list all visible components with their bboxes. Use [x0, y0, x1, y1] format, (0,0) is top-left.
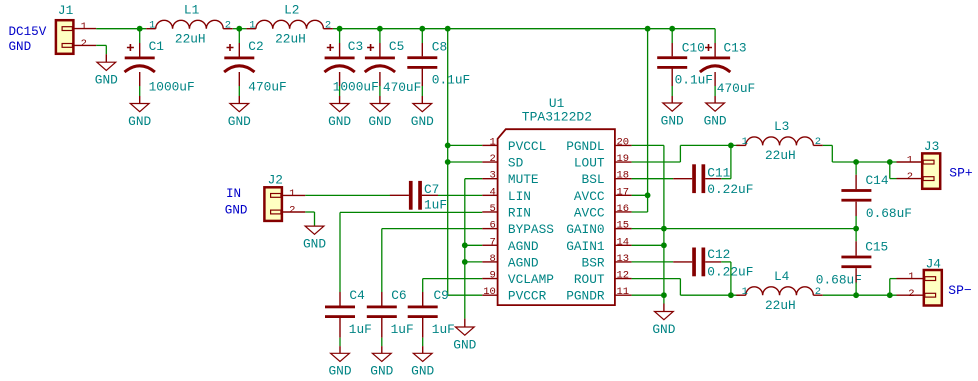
- wire C10 bottom pin: [671, 69, 673, 87]
- capacitor C13 470uF: [700, 41, 755, 97]
- svg-text:1: 1: [81, 21, 87, 33]
- junction J3 pin2 tap: [887, 159, 893, 165]
- wire to pin2 SD: [448, 161, 483, 163]
- ground C6: [370, 353, 393, 378]
- pin 2 SD: [482, 153, 523, 171]
- wire C8 top: [421, 29, 423, 43]
- svg-text:PGNDL: PGNDL: [566, 139, 604, 154]
- svg-text:C10: C10: [682, 41, 705, 56]
- wire pin11 PGNDR: [632, 294, 664, 296]
- wire C8 bottom pin: [421, 69, 423, 87]
- svg-text:C13: C13: [724, 41, 747, 56]
- svg-text:15: 15: [617, 220, 630, 232]
- svg-text:3: 3: [489, 170, 495, 182]
- wire J2 pin1 stub: [282, 194, 305, 196]
- wire AVCC vertical: [647, 29, 649, 212]
- svg-text:470uF: 470uF: [717, 81, 755, 96]
- svg-text:8: 8: [489, 253, 495, 265]
- svg-text:PVCCL: PVCCL: [508, 139, 546, 154]
- connector J1: [56, 3, 87, 54]
- svg-text:SP−: SP−: [948, 283, 972, 298]
- wire C11 right: [721, 178, 731, 180]
- capacitor C1 1000uF: [125, 39, 195, 95]
- svg-text:2: 2: [815, 136, 821, 148]
- svg-text:22uH: 22uH: [765, 148, 796, 163]
- svg-text:0.1uF: 0.1uF: [675, 73, 713, 88]
- inductor L1 22uH: [146, 2, 233, 46]
- inductor L2 22uH: [246, 2, 333, 46]
- wire J2 to C7: [305, 194, 390, 196]
- svg-text:J1: J1: [58, 3, 74, 18]
- junction AVCC vertical/rail: [645, 26, 651, 32]
- capacitor C6 1uF: [367, 288, 414, 337]
- svg-text:0.68uF: 0.68uF: [866, 206, 912, 221]
- svg-text:C9: C9: [434, 288, 449, 303]
- ground J2: [303, 226, 326, 251]
- svg-text:BSL: BSL: [582, 172, 605, 187]
- svg-text:J3: J3: [924, 139, 939, 154]
- pin 1 PVCCL: [482, 136, 546, 154]
- svg-text:GAIN0: GAIN0: [566, 222, 604, 237]
- wire C2 top: [238, 29, 240, 43]
- wire C5 bottom pin: [379, 72, 381, 86]
- wire L3 down: [831, 145, 833, 162]
- wire MUTE/AGND vertical: [464, 179, 466, 319]
- junction C1/rail: [137, 26, 143, 32]
- wire ROUT to L4: [680, 294, 740, 296]
- svg-text:GND: GND: [9, 40, 32, 54]
- capacitor C11 0.22uF: [673, 164, 753, 197]
- wire to pin10 PVCCR: [448, 294, 483, 296]
- wire to pin16 AVCC: [632, 211, 648, 213]
- ground PGND: [652, 312, 675, 337]
- svg-text:GND: GND: [453, 337, 476, 352]
- wire pin18 BSL: [632, 178, 674, 180]
- svg-text:2: 2: [225, 20, 231, 32]
- pin 10 PVCCR: [482, 286, 546, 304]
- svg-text:L2: L2: [284, 2, 299, 17]
- svg-text:J2: J2: [268, 172, 283, 187]
- svg-text:2: 2: [489, 153, 495, 165]
- wire gnd stem: [339, 96, 341, 104]
- svg-text:GND: GND: [652, 322, 675, 337]
- pin 5 RIN: [482, 203, 531, 221]
- wire J2 pin2 stub: [282, 211, 305, 213]
- svg-text:1: 1: [908, 271, 914, 283]
- wire J3 pin1 stub: [897, 161, 923, 163]
- svg-text:L4: L4: [774, 269, 790, 284]
- inductor L3 22uH: [736, 119, 823, 163]
- wire to pin1 PVCCL: [448, 144, 483, 146]
- wire C15 bottom pin: [855, 268, 857, 282]
- junction C14 top: [853, 159, 859, 165]
- wire C3 pin: [339, 43, 341, 57]
- junction PVCC vertical/rail: [445, 26, 451, 32]
- svg-text:9: 9: [489, 270, 495, 282]
- wire C14 top pin: [855, 175, 857, 189]
- wire J4 pin1: [890, 278, 897, 280]
- connector J2: [264, 172, 295, 221]
- svg-text:C4: C4: [349, 288, 365, 303]
- svg-text:AVCC: AVCC: [574, 205, 605, 220]
- svg-text:1uF: 1uF: [349, 322, 372, 337]
- svg-text:PGNDR: PGNDR: [566, 289, 605, 304]
- wire top rail L2 to C13: [333, 28, 715, 30]
- pin 9 VCLAMP: [482, 270, 554, 288]
- capacitor C4 1uF: [325, 288, 372, 337]
- svg-text:17: 17: [617, 186, 630, 198]
- svg-text:PVCCR: PVCCR: [508, 289, 547, 304]
- wire J3 pin2 vertical: [889, 162, 891, 179]
- svg-text:C12: C12: [707, 247, 730, 262]
- wire down to C9: [422, 279, 424, 292]
- svg-text:GND: GND: [411, 114, 434, 129]
- svg-text:GND: GND: [661, 113, 684, 128]
- svg-text:2: 2: [289, 205, 295, 217]
- svg-text:GND: GND: [225, 204, 248, 218]
- pin 16 AVCC: [574, 203, 632, 221]
- wire LOUT to L3: [680, 144, 740, 146]
- svg-text:1: 1: [742, 286, 748, 298]
- wire pin8 AGND: [465, 261, 483, 263]
- wire C5 to gnd: [379, 86, 381, 96]
- svg-text:RIN: RIN: [508, 205, 531, 220]
- wire C8 pin: [421, 43, 423, 56]
- svg-text:1uF: 1uF: [391, 322, 414, 337]
- wire C9 top pin: [422, 292, 424, 306]
- svg-text:1: 1: [249, 20, 255, 32]
- wire C10 pin: [671, 43, 673, 56]
- wire PVCC vertical: [447, 29, 449, 296]
- wire J4 pin1 vertical: [889, 279, 891, 296]
- wire C10 top: [671, 29, 673, 43]
- svg-text:2: 2: [815, 286, 821, 298]
- svg-text:GND: GND: [328, 114, 351, 129]
- pin 20 PGNDL: [566, 136, 631, 154]
- wire C15 top pin: [855, 241, 857, 255]
- junction C3/rail: [337, 26, 343, 32]
- wire J3 pin2 stub: [897, 178, 923, 180]
- pin 8 AGND: [482, 253, 539, 271]
- svg-text:7: 7: [489, 236, 495, 248]
- svg-text:1: 1: [907, 155, 913, 167]
- svg-text:GND: GND: [370, 364, 393, 379]
- svg-text:C3: C3: [348, 39, 363, 54]
- wire J1 pin2 to gnd: [96, 44, 106, 46]
- svg-text:0.1uF: 0.1uF: [432, 73, 470, 88]
- junction C12 tap: [728, 292, 734, 298]
- capacitor C7 1uF: [390, 181, 447, 213]
- svg-text:C2: C2: [248, 39, 263, 54]
- svg-text:C6: C6: [391, 288, 406, 303]
- svg-text:6: 6: [489, 220, 495, 232]
- wire C4 to gnd: [339, 338, 341, 346]
- wire gnd stem: [421, 96, 423, 104]
- svg-text:1000uF: 1000uF: [149, 80, 195, 95]
- svg-text:0.68uF: 0.68uF: [816, 273, 862, 288]
- wire C9 bottom pin: [422, 318, 424, 338]
- svg-text:470uF: 470uF: [248, 80, 286, 95]
- capacitor C3 1000uF: [324, 39, 378, 95]
- wire C7 to pin4 LIN: [438, 194, 482, 196]
- junction pin15 GAIN0: [661, 226, 667, 232]
- capacitor C10 0.1uF: [657, 41, 713, 88]
- wire C2 bottom pin: [238, 72, 240, 86]
- wire J4 pin1 stub: [897, 278, 924, 280]
- wire J1 pin1 stub: [73, 28, 96, 30]
- svg-text:14: 14: [617, 236, 630, 248]
- svg-text:2: 2: [907, 171, 913, 183]
- wire C15 bottom: [855, 283, 857, 296]
- wire gnd stem: [381, 346, 383, 353]
- ground C2: [228, 104, 251, 129]
- wire J3 pin2: [890, 178, 897, 180]
- ground AGND: [453, 327, 476, 352]
- pin 6 BYPASS: [482, 220, 554, 238]
- op-amp U1 TPA3122D2 body: [498, 96, 615, 305]
- capacitor C15 0.68uF: [816, 239, 888, 287]
- svg-text:1: 1: [289, 188, 295, 200]
- junction C14/C15: [853, 226, 859, 232]
- wire C3 top: [339, 29, 341, 43]
- wire C15 top: [855, 229, 857, 242]
- svg-text:16: 16: [617, 203, 630, 215]
- svg-text:5: 5: [489, 203, 495, 215]
- wire pin9 VCLAMP to C9: [423, 278, 483, 280]
- wire gnd stem: [105, 54, 107, 62]
- wire C3 bottom pin: [339, 72, 341, 86]
- pin 3 MUTE: [482, 170, 539, 188]
- wire pin13 BSR: [632, 261, 674, 263]
- wire pin5 RIN to C4: [340, 211, 482, 213]
- junction pin17: [645, 192, 651, 198]
- wire C2 pin: [238, 43, 240, 57]
- junction pin1: [445, 143, 451, 149]
- capacitor C8 0.1uF: [407, 39, 470, 87]
- svg-text:C1: C1: [149, 39, 165, 54]
- ground C4: [328, 353, 351, 378]
- svg-text:13: 13: [617, 253, 630, 265]
- svg-text:C8: C8: [432, 39, 447, 54]
- junction pin8 AGND: [462, 259, 468, 265]
- wire C12 right: [721, 261, 731, 263]
- pin 14 GAIN1: [566, 236, 631, 254]
- wire pin19 LOUT: [632, 161, 681, 163]
- svg-text:LIN: LIN: [508, 189, 531, 204]
- ground C5: [368, 104, 391, 129]
- wire C2 to gnd: [238, 86, 240, 96]
- wire C14 bottom pin: [855, 202, 857, 216]
- svg-text:1uF: 1uF: [424, 198, 447, 213]
- wire C13 pin: [714, 43, 716, 57]
- wire ROUT down: [679, 279, 681, 296]
- svg-text:ROUT: ROUT: [574, 272, 605, 287]
- wire C1 pin: [139, 43, 141, 57]
- capacitor C12 0.22uF: [673, 247, 753, 279]
- wire pin7 AGND: [465, 244, 483, 246]
- wire C11 up to LOUT: [730, 145, 732, 178]
- svg-text:GND: GND: [368, 114, 391, 129]
- junction C11 tap: [728, 143, 734, 149]
- wire top rail L1 to L2: [233, 28, 247, 30]
- wire C4 top pin: [339, 292, 341, 306]
- capacitor C2 470uF: [224, 39, 287, 95]
- svg-text:GND: GND: [303, 236, 326, 251]
- wire C1 to gnd: [139, 86, 141, 96]
- junction C5/rail: [377, 26, 383, 32]
- svg-text:470uF: 470uF: [383, 80, 421, 95]
- junction pin14 GAIN1: [661, 242, 667, 248]
- svg-text:18: 18: [617, 170, 630, 182]
- svg-text:C14: C14: [866, 173, 889, 188]
- wire C12 down to ROUT: [730, 262, 732, 295]
- wire C10 to gnd: [671, 86, 673, 96]
- wire C14 bottom: [855, 216, 857, 229]
- wire down to C4: [339, 212, 341, 292]
- wire L3 right: [823, 144, 833, 146]
- wire LOUT up: [679, 145, 681, 162]
- wire gnd stem: [379, 96, 381, 104]
- svg-text:C7: C7: [424, 182, 439, 197]
- svg-text:IN: IN: [226, 187, 241, 201]
- wire C6 bottom pin: [381, 318, 383, 338]
- connector J3: [907, 139, 941, 189]
- pin 4 LIN: [482, 186, 531, 204]
- capacitor C14 0.68uF: [841, 173, 912, 221]
- ground J1: [95, 62, 118, 87]
- wire top rail J1 to L1: [96, 28, 146, 30]
- wire down to gnd: [105, 45, 107, 54]
- wire C14 top: [855, 162, 857, 175]
- svg-text:J4: J4: [926, 256, 942, 271]
- wire PGND vertical: [663, 145, 665, 303]
- pin 19 LOUT: [574, 153, 632, 171]
- svg-text:1: 1: [149, 20, 155, 32]
- wire gnd stem: [714, 96, 716, 103]
- svg-text:TPA3122D2: TPA3122D2: [522, 110, 592, 125]
- wire to pin17 AVCC: [632, 194, 648, 196]
- wire C1 top: [139, 29, 141, 43]
- svg-text:11: 11: [617, 286, 630, 298]
- svg-text:20: 20: [617, 136, 630, 148]
- wire J4 pin2 stub: [897, 294, 924, 296]
- wire C3 to gnd: [339, 86, 341, 96]
- pin 18 BSL: [582, 170, 632, 188]
- svg-text:1uF: 1uF: [432, 322, 455, 337]
- junction C10/rail: [669, 26, 675, 32]
- wire C5 pin: [379, 43, 381, 57]
- wire gnd stem: [238, 96, 240, 104]
- wire C13 to gnd: [714, 86, 716, 96]
- svg-text:22uH: 22uH: [765, 298, 796, 313]
- svg-text:SP+: SP+: [949, 166, 973, 181]
- wire pin20 PGNDL: [632, 144, 664, 146]
- pin 15 GAIN0: [566, 220, 631, 238]
- wire J2 pin2: [305, 211, 314, 213]
- wire J1 pin2 stub: [73, 44, 96, 46]
- junction J4 pin1 tap: [887, 292, 893, 298]
- wire C5 top: [379, 29, 381, 43]
- wire C6 to gnd: [381, 338, 383, 346]
- svg-text:19: 19: [617, 153, 630, 165]
- wire pin15 GAIN0 seg: [632, 228, 664, 230]
- wire L4 right to J4: [823, 294, 897, 296]
- svg-text:MUTE: MUTE: [508, 172, 539, 187]
- svg-text:AGND: AGND: [508, 239, 539, 254]
- ground C13: [704, 103, 727, 128]
- wire GAIN0 to C14/C15: [664, 228, 856, 230]
- junction C8/rail: [419, 26, 425, 32]
- junction pin7 AGND: [462, 242, 468, 248]
- inductor L4 22uH: [736, 269, 823, 313]
- wire pin6 BYPASS to C6: [382, 228, 483, 230]
- wire gnd stem: [339, 346, 341, 353]
- junction C2/rail: [236, 26, 242, 32]
- pin 7 AGND: [482, 236, 539, 254]
- svg-text:C15: C15: [865, 239, 888, 254]
- svg-text:12: 12: [617, 270, 630, 282]
- wire gnd stem: [671, 96, 673, 103]
- ground C9: [411, 353, 434, 378]
- wire to J3: [832, 161, 896, 163]
- wire C9 to gnd: [422, 338, 424, 346]
- svg-text:0.22uF: 0.22uF: [707, 182, 753, 197]
- pin 11 PGNDR: [566, 286, 631, 304]
- svg-text:LOUT: LOUT: [574, 156, 605, 171]
- wire pin14 GAIN1: [632, 244, 664, 246]
- svg-text:GAIN1: GAIN1: [566, 239, 605, 254]
- svg-text:GND: GND: [328, 364, 351, 379]
- svg-text:4: 4: [489, 186, 495, 198]
- ground C3: [328, 104, 351, 129]
- svg-text:22uH: 22uH: [275, 32, 306, 47]
- svg-text:DC15V: DC15V: [9, 25, 47, 39]
- wire gnd stem: [663, 304, 665, 312]
- svg-text:GND: GND: [95, 73, 118, 88]
- wire gnd stem: [422, 346, 424, 353]
- wire down to gnd: [314, 212, 316, 226]
- svg-text:GND: GND: [704, 113, 727, 128]
- ground C10: [661, 103, 684, 128]
- svg-text:2: 2: [325, 20, 331, 32]
- svg-text:AVCC: AVCC: [574, 189, 605, 204]
- connector J4: [908, 256, 942, 305]
- wire C4 bottom pin: [339, 318, 341, 338]
- svg-text:L3: L3: [774, 119, 789, 134]
- junction pin2: [445, 159, 451, 165]
- svg-text:1: 1: [489, 136, 495, 148]
- svg-text:C5: C5: [389, 39, 404, 54]
- svg-text:VCLAMP: VCLAMP: [508, 272, 554, 287]
- svg-text:BYPASS: BYPASS: [508, 222, 554, 237]
- wire C6 top pin: [381, 292, 383, 306]
- pin 13 BSR: [582, 253, 632, 271]
- pin 17 AVCC: [574, 186, 632, 204]
- wire C1 bottom pin: [139, 72, 141, 86]
- wire pin3 MUTE: [465, 178, 483, 180]
- capacitor C5 470uF: [365, 39, 422, 95]
- wire gnd stem: [139, 96, 141, 104]
- svg-text:AGND: AGND: [508, 255, 539, 270]
- junction C15 bottom: [853, 292, 859, 298]
- svg-text:GND: GND: [228, 114, 251, 129]
- svg-text:GND: GND: [128, 114, 151, 129]
- svg-text:BSR: BSR: [582, 255, 605, 270]
- wire down to C6: [381, 229, 383, 292]
- svg-text:1: 1: [742, 136, 748, 148]
- ground C8: [411, 104, 434, 129]
- svg-text:10: 10: [483, 286, 496, 298]
